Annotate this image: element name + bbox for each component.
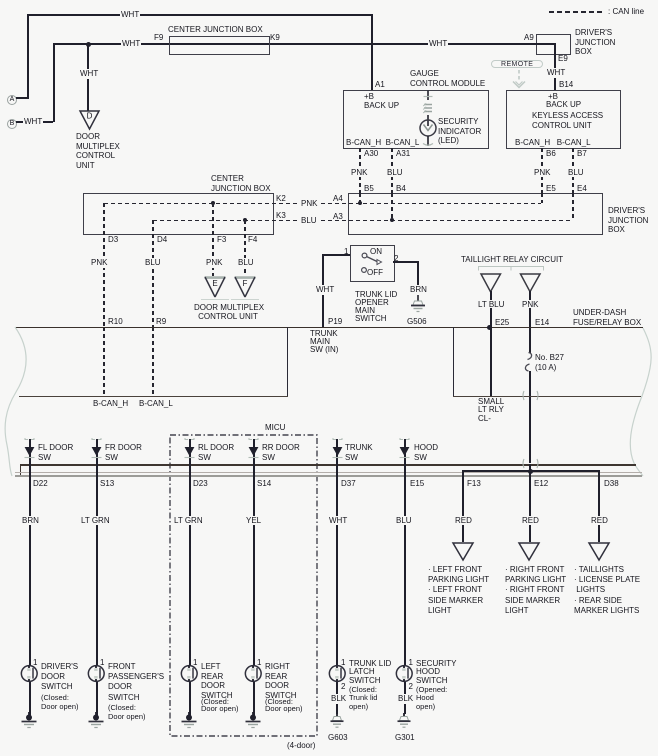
svg-text:D: D xyxy=(87,112,93,121)
svg-text:E: E xyxy=(212,279,217,288)
svg-text:F: F xyxy=(243,279,248,288)
